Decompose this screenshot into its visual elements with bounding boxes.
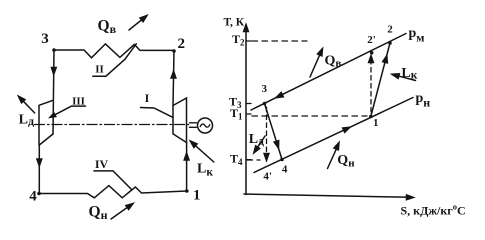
compressor I [173,98,187,143]
motor circle with ~ [198,118,213,133]
svg-text:рм: рм [409,26,425,45]
label I with leader [141,91,173,117]
svg-text:3: 3 [41,31,49,47]
S axis (horizontal) [244,194,466,218]
point 3 [262,83,268,105]
svg-text:рн: рн [416,91,431,110]
svg-text:3: 3 [262,83,268,95]
svg-text:2': 2' [367,34,376,46]
node 1 [185,188,201,204]
tick T4 [230,151,251,167]
svg-text:Qн: Qн [89,204,108,223]
point 2 [387,24,393,45]
label Lk with arrow (left) [189,139,214,178]
svg-text:I: I [145,91,150,105]
svg-text:2: 2 [178,36,186,52]
heat exchanger II (top cooler) zigzag wire [54,44,174,58]
svg-text:Qв: Qв [325,53,342,69]
tick T1 [230,106,251,122]
svg-text:Lк: Lк [197,161,213,178]
wire node 1 to compressor (up arrow) [184,143,189,192]
isobar p_m through 3,2',2 [251,26,424,110]
coupling = [190,123,197,128]
heat exchanger IV (bottom heater) zigzag wire [39,186,187,198]
tick T3 [229,95,251,111]
label Qn with slash arrow (TS) [328,142,356,170]
wire node 2 to compressor I (up arrow) [171,51,176,106]
process line 3-4 [265,104,283,160]
dashed line T1 level to point 1 [252,115,367,117]
wire node3 to turbine III (down arrow) [51,50,56,134]
isobar p_n through 4',4,1 [254,91,430,173]
point 1 [369,115,379,129]
svg-text:4': 4' [263,171,272,183]
svg-text:Т, К: Т, К [224,17,245,29]
shaft dash-dot line [35,124,189,126]
dashed line T2 level [252,40,307,42]
svg-text:Lд: Lд [19,113,34,128]
svg-text:1: 1 [373,117,379,129]
svg-text:1: 1 [193,188,201,204]
svg-text:II: II [95,64,104,76]
node 4 [29,189,41,205]
label III with leader [49,95,85,119]
node 3 [41,31,56,52]
node 2 [172,36,185,53]
dashed ideal 3-4' [264,107,269,161]
label IV with leader [94,157,132,190]
label Lk with leader arrow (TS) [391,66,417,82]
svg-text:Qн: Qн [337,153,355,169]
svg-text:Т4: Т4 [230,151,243,167]
label Qn with arrow (left) [89,202,135,223]
wire turbine to node 4 (down arrow) [37,145,42,194]
label Ld with arrow (left) [17,95,35,128]
label Ld with arrow (TS) [249,132,265,154]
svg-text:Qв: Qв [98,18,117,37]
point 4' label [263,171,272,183]
tick T2 [232,32,251,48]
dashed ideal 1-2' [369,56,374,113]
T axis (vertical) [224,17,249,195]
label Qv with arrow (left) [98,14,149,37]
dashed line T4 level [247,159,260,161]
svg-text:IV: IV [95,157,109,171]
svg-text:S, кДж/кгоС: S, кДж/кгоС [401,202,466,218]
svg-text:2: 2 [387,24,393,36]
label Qv with slash arrow (TS) [310,48,341,77]
point 2' [367,34,376,55]
turbine III (expander) [39,100,53,145]
point 4 [280,158,288,176]
process line 1-2 [371,43,390,117]
svg-text:4: 4 [282,163,288,175]
svg-text:4: 4 [29,189,37,205]
label II with leader [93,44,137,76]
svg-text:Т2: Т2 [232,32,245,48]
